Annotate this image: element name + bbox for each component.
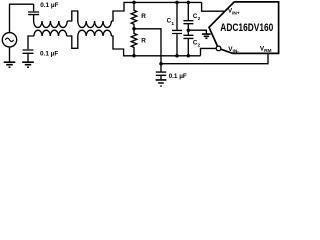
- resistor R (bottom): [131, 29, 137, 56]
- capacitor C1: [172, 2, 182, 55]
- wire jog bottom (between T1 and T2): [67, 36, 78, 48]
- wire VRM to bypass: [161, 53, 268, 63]
- wire staircase top to VIN+ line: [111, 2, 201, 21]
- ADC U1 torn-edge outline: [209, 2, 279, 54]
- svg-text:1: 1: [171, 21, 174, 27]
- capacitor C2 (bottom): [183, 30, 193, 56]
- wire jog top (between T1 and T2): [67, 11, 78, 21]
- transformer T1 primary (top winding): [34, 21, 68, 28]
- node C2 mid: [187, 28, 191, 32]
- transformer T2 secondary (bottom winding): [78, 30, 112, 36]
- transformer T1 secondary (bottom winding): [34, 30, 67, 36]
- node C2 bottom: [187, 54, 191, 58]
- svg-text:IN-: IN-: [233, 49, 240, 55]
- transformer T2 primary (top winding): [78, 21, 112, 28]
- node C1 bottom: [175, 54, 179, 58]
- wire staircase bottom to VIN- line: [111, 36, 200, 56]
- svg-text:R: R: [141, 13, 146, 20]
- svg-text:R: R: [141, 37, 146, 44]
- ground (VRM bypass): [156, 80, 167, 86]
- VIN- pin circle: [216, 46, 221, 51]
- svg-text:0.1 µF: 0.1 µF: [40, 51, 58, 58]
- capacitor C2 (top): [183, 2, 193, 30]
- node C2 top: [187, 1, 191, 5]
- wire source bottom lead: [9, 47, 11, 62]
- capacitor 0.1uF shunt (T1 secondary): [23, 50, 34, 62]
- svg-text:2: 2: [198, 16, 201, 22]
- capacitor 0.1uF VRM bypass: [156, 64, 166, 79]
- svg-text:0.1 µF: 0.1 µF: [40, 2, 58, 9]
- AC source V1: [2, 33, 16, 47]
- wire resistor mid tap to VRM: [134, 29, 161, 64]
- node resistor mid: [132, 27, 136, 31]
- svg-text:RM: RM: [264, 48, 271, 54]
- ground (shunt cap): [22, 62, 34, 67]
- resistor R (top): [131, 2, 137, 28]
- node resistor bottom: [132, 54, 136, 58]
- svg-text:ADC16DV160: ADC16DV160: [220, 22, 273, 34]
- svg-text:2: 2: [198, 42, 201, 48]
- wire C2 mid to ground: [188, 30, 206, 34]
- wire T1 secondary left to shunt cap: [28, 36, 34, 49]
- node VRM bypass: [159, 62, 163, 65]
- node resistor top: [132, 1, 136, 5]
- ground (source): [4, 62, 16, 67]
- capacitor 0.1uF series input: [28, 4, 39, 21]
- wire VIN+ entry: [202, 2, 225, 11]
- wire bottom line to VIN- pin: [201, 48, 217, 55]
- svg-text:0.1 µF: 0.1 µF: [169, 73, 187, 80]
- ground (C2 mid): [202, 34, 211, 38]
- svg-text:IN+: IN+: [232, 10, 240, 16]
- node C1 top: [175, 1, 179, 5]
- wire from source to input cap: [10, 4, 34, 32]
